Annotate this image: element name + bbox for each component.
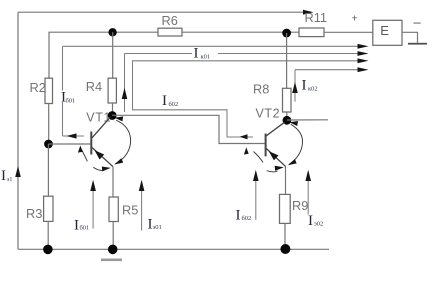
current arc VT2 collector loop bbox=[289, 124, 302, 164]
svg-text:R4: R4 bbox=[86, 79, 102, 94]
svg-text:I: I bbox=[236, 208, 241, 224]
current arrow Ib02 under VT2 bbox=[236, 170, 259, 224]
svg-text:R11: R11 bbox=[305, 10, 328, 25]
svg-text:б02: б02 bbox=[169, 101, 179, 108]
node dot bottom right bbox=[280, 244, 290, 254]
wire E to ground bbox=[402, 32, 418, 43]
VT1 collector lead bbox=[92, 118, 110, 138]
wire R3 to bottom rail bbox=[47, 221, 49, 249]
VT2 emitter arrow (pnp, into base) bbox=[269, 151, 279, 160]
wire left rail bbox=[17, 12, 19, 249]
VT1 base bar bbox=[90, 132, 92, 155]
current arc VT1 emitter bottom bbox=[93, 167, 104, 170]
arrowhead into VT1 emitter corner bbox=[114, 158, 123, 164]
VT2 collector lead bbox=[266, 122, 284, 136]
svg-text:R2: R2 bbox=[30, 80, 46, 95]
resistor R11 bbox=[299, 28, 324, 37]
ground at E bbox=[408, 43, 427, 45]
node dot bottom left bbox=[43, 245, 53, 255]
svg-text:R3: R3 bbox=[26, 206, 42, 221]
current path Ib02: VT2 base loop to rail bbox=[133, 58, 369, 139]
svg-text:I: I bbox=[162, 93, 167, 109]
svg-text:–: – bbox=[414, 15, 422, 30]
svg-text:I: I bbox=[1, 168, 6, 184]
current arc VT1 collector loop bbox=[116, 120, 131, 164]
wire R8 to VT2 collector node bbox=[286, 112, 288, 120]
resistor R4 bbox=[108, 78, 116, 103]
arrowhead into VT1 collector node bbox=[115, 116, 124, 121]
wire R2 to base node bbox=[48, 104, 50, 145]
wire R5 to bottom rail bbox=[112, 222, 114, 250]
svg-text:б02: б02 bbox=[242, 215, 252, 222]
VT1 base wire from divider bbox=[49, 143, 91, 145]
ground symbol bbox=[101, 259, 122, 262]
svg-text:R6: R6 bbox=[162, 13, 178, 28]
current arrow into VT2 base bbox=[254, 152, 264, 163]
svg-text:э1: э1 bbox=[7, 176, 13, 183]
svg-text:VT2: VT2 bbox=[256, 106, 281, 120]
node dot bottom center bbox=[108, 245, 118, 255]
current arc VT2 emitter bottom bbox=[267, 171, 278, 172]
transistor VT1 bbox=[86, 110, 113, 197]
resistor R2 bbox=[48, 77, 50, 79]
VT1 emitter wire down bbox=[112, 167, 114, 197]
current arrow Ie01 right of R5 bbox=[139, 180, 162, 233]
current arrow Ie1 on left rail bbox=[15, 166, 21, 177]
node dot on rail above R4 bbox=[108, 28, 116, 36]
svg-text:э01: э01 bbox=[153, 224, 162, 231]
svg-text:R8: R8 bbox=[253, 82, 269, 97]
node dot VT2 collector bbox=[283, 116, 292, 125]
node dot on rail above R8 bbox=[282, 29, 291, 38]
resistor R6 bbox=[158, 28, 182, 36]
VT1 emitter arrow (pnp, into base) bbox=[95, 150, 105, 159]
wire supply rail y32 from R2 top corner bbox=[49, 32, 158, 78]
node dot VT1 collector bbox=[108, 111, 117, 120]
VT2 emitter lead bbox=[266, 149, 286, 167]
svg-text:б01: б01 bbox=[66, 98, 76, 105]
svg-text:E: E bbox=[380, 23, 389, 38]
transistor VT2 bbox=[256, 106, 286, 194]
node dot VT1 base divider bbox=[44, 140, 53, 149]
current path Ib01: base to rail bbox=[61, 44, 369, 139]
svg-text:VT1: VT1 bbox=[86, 110, 111, 124]
svg-text:I: I bbox=[74, 218, 79, 234]
current arrow Ie02 right of R9 bbox=[305, 170, 323, 229]
battery E bbox=[373, 20, 402, 45]
resistor R9 bbox=[280, 194, 291, 223]
resistor R5 bbox=[109, 197, 118, 222]
wire node to R3 bbox=[47, 144, 49, 196]
resistor R3 bbox=[44, 196, 53, 221]
VT1 emitter lead bbox=[92, 148, 113, 167]
svg-text:R9: R9 bbox=[292, 198, 308, 213]
resistor R8 bbox=[283, 88, 292, 112]
svg-text:+: + bbox=[352, 13, 358, 25]
current path Ik02: VT2 collector to rail bbox=[292, 67, 368, 102]
current arrow into VT1 base bbox=[82, 150, 88, 162]
VT2 emitter wire down bbox=[285, 167, 287, 195]
current path Ik01: collector to rail bbox=[122, 46, 369, 113]
wire rail to R8 bbox=[286, 33, 288, 88]
VT2 base bar bbox=[265, 134, 267, 157]
wire R4 to VT1 collector node bbox=[112, 103, 114, 116]
wire R9 to bottom rail bbox=[284, 223, 286, 249]
arrowhead into VT2 emitter corner bbox=[288, 159, 297, 165]
arrowhead into VT2 collector node bbox=[289, 121, 298, 126]
svg-text:к01: к01 bbox=[201, 54, 211, 61]
current arrow Ib01 under VT1 bbox=[74, 180, 96, 234]
svg-text:к02: к02 bbox=[308, 86, 318, 93]
wire VT2 collector output bbox=[287, 119, 328, 121]
wire coupling VT1 collector to VT2 base bbox=[112, 115, 264, 143]
svg-text:I: I bbox=[302, 78, 307, 94]
wire bottom rail (common) bbox=[18, 248, 329, 250]
wire R11 to battery E bbox=[324, 31, 373, 33]
wire rail to R4 bbox=[112, 32, 114, 78]
svg-text:э02: э02 bbox=[314, 221, 323, 228]
svg-text:R5: R5 bbox=[122, 203, 138, 218]
wire top rail with current arrow to E plus bbox=[18, 10, 314, 15]
svg-text:I: I bbox=[194, 46, 199, 62]
wire R6 to R11 bbox=[182, 31, 299, 33]
svg-text:б01: б01 bbox=[80, 225, 90, 232]
svg-text:I: I bbox=[308, 213, 313, 229]
